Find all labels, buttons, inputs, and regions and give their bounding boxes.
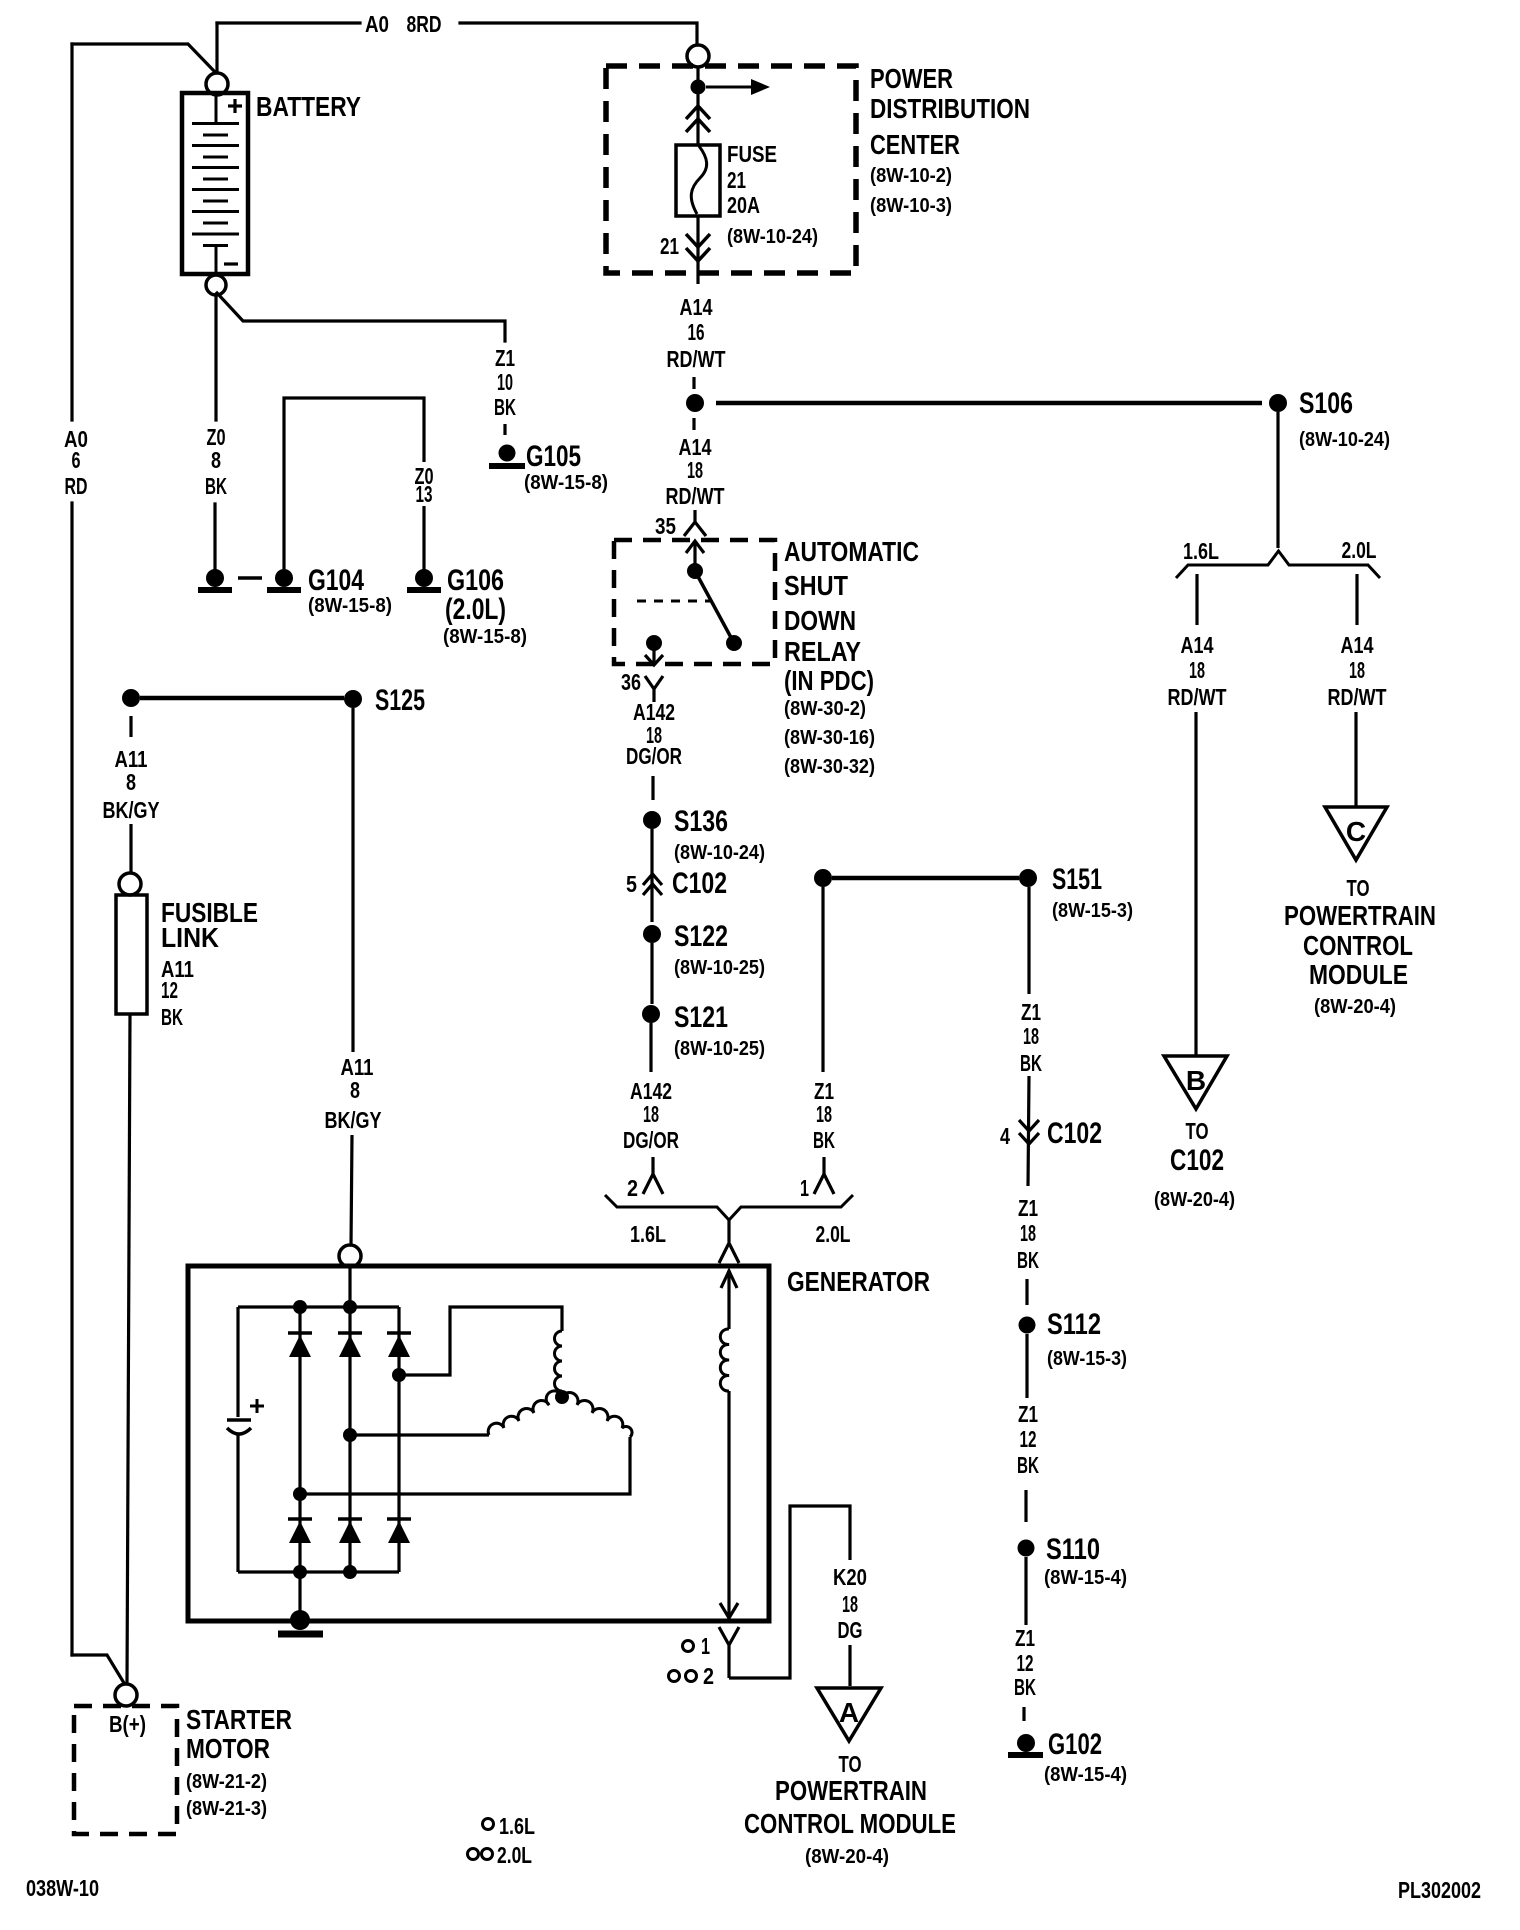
svg-text:(8W-20-4): (8W-20-4) [1154, 1189, 1235, 1211]
generator box [188, 1266, 769, 1621]
svg-text:(2.0L): (2.0L) [445, 593, 506, 626]
svg-text:BATTERY: BATTERY [256, 91, 361, 122]
svg-text:PL302002: PL302002 [1398, 1877, 1481, 1903]
generator output terminal circle [339, 1245, 361, 1267]
splice S112 [1019, 1317, 1036, 1334]
triangle connector B [1164, 1056, 1227, 1109]
connector pin 35 [684, 510, 706, 536]
triangle connector C [1325, 807, 1387, 860]
diode D1 bottom [288, 1517, 312, 1521]
capacitor branch lower [236, 1434, 239, 1572]
wire generator terminal stem [348, 1267, 351, 1307]
svg-text:(8W-30-2): (8W-30-2) [784, 698, 866, 720]
relay pin 35 arrow inside [693, 541, 696, 570]
diode D3 top [387, 1331, 411, 1335]
wire 2.0L branch to triangle C [1354, 712, 1357, 807]
svg-text:4: 4 [1000, 1123, 1010, 1149]
capacitor plus sign [250, 1399, 264, 1413]
svg-text:SHUT: SHUT [784, 570, 848, 601]
generator case ground stem [298, 1572, 301, 1618]
wire Z0 battery negative down [214, 295, 217, 420]
fuse element wave [691, 146, 706, 214]
svg-text:12: 12 [1020, 1426, 1037, 1452]
splice S125 left dot [122, 689, 140, 707]
svg-text:(8W-15-3): (8W-15-3) [1047, 1348, 1127, 1370]
svg-text:18: 18 [1349, 657, 1365, 683]
wire A0 top horizontal right segment [460, 23, 697, 44]
wire A0 top horizontal left segment [217, 21, 360, 24]
svg-text:DISTRIBUTION: DISTRIBUTION [870, 93, 1030, 124]
splice S106 [1269, 394, 1287, 412]
svg-text:RD/WT: RD/WT [1328, 684, 1387, 710]
svg-text:18: 18 [842, 1591, 858, 1617]
wire dash to G105 [503, 424, 506, 435]
ground G105 [499, 445, 516, 462]
junction dot stator tap 1 [293, 1487, 307, 1501]
ground G104 right dot [275, 569, 293, 587]
svg-text:CONTROL: CONTROL [1303, 930, 1413, 961]
junction dot stator tap 2 [343, 1428, 357, 1442]
svg-text:8: 8 [126, 769, 136, 795]
battery internal bottom stem [215, 246, 218, 273]
svg-text:BK: BK [1017, 1452, 1039, 1478]
relay common contact dot [687, 563, 703, 579]
svg-text:POWERTRAIN: POWERTRAIN [1284, 900, 1436, 931]
wire Z1 battery negative to G105 [217, 293, 505, 341]
generator case ground [290, 1610, 310, 1630]
svg-text:A14: A14 [1341, 632, 1374, 658]
svg-text:(IN PDC): (IN PDC) [784, 665, 874, 696]
power distribution center dashed box [606, 66, 856, 273]
svg-text:(8W-30-32): (8W-30-32) [784, 756, 875, 778]
svg-text:G104: G104 [308, 564, 364, 597]
svg-text:(8W-15-3): (8W-15-3) [1052, 900, 1133, 922]
svg-text:(8W-21-3): (8W-21-3) [186, 1798, 267, 1820]
field winding coil [720, 1329, 729, 1391]
wire dash below junction [692, 418, 695, 430]
svg-text:DG: DG [838, 1617, 863, 1643]
svg-text:18: 18 [643, 1101, 659, 1127]
svg-text:(8W-15-4): (8W-15-4) [1044, 1567, 1127, 1589]
junction dot in PDC [691, 80, 706, 95]
wire to generator terminal [351, 1135, 352, 1246]
svg-text:1.6L: 1.6L [630, 1221, 666, 1247]
wire to fusible link [129, 824, 132, 873]
svg-text:BK: BK [1014, 1674, 1036, 1700]
svg-text:S110: S110 [1046, 1533, 1100, 1566]
svg-text:16: 16 [688, 319, 705, 345]
wire S112 down [1025, 1334, 1028, 1398]
wire S125 horizontal [140, 696, 344, 700]
wire dash below S125 left [129, 716, 132, 737]
svg-text:2.0L: 2.0L [1342, 537, 1377, 563]
svg-text:CONTROL MODULE: CONTROL MODULE [744, 1808, 956, 1839]
junction dots top bus [293, 1300, 307, 1314]
diode D2 bottom [338, 1517, 362, 1521]
svg-text:35: 35 [655, 513, 676, 539]
stator center junction dot [555, 1390, 569, 1404]
connector generator field pin [719, 1243, 739, 1263]
svg-text:18: 18 [1189, 657, 1205, 683]
relay thrown contact dot [726, 635, 742, 651]
svg-text:Z1: Z1 [1021, 999, 1041, 1025]
svg-text:(8W-15-8): (8W-15-8) [443, 626, 527, 648]
wire stator phase 2 [350, 1433, 489, 1436]
wire 1.6L branch upper [1195, 574, 1198, 625]
wire A0 left vertical upper [70, 44, 73, 420]
wire A0 into starter B(+) [72, 1655, 124, 1683]
starter B(+) terminal circle [115, 1684, 137, 1706]
svg-text:(8W-30-16): (8W-30-16) [784, 727, 875, 749]
svg-text:8RD: 8RD [407, 11, 442, 37]
svg-text:13: 13 [416, 481, 433, 507]
battery minus sign [224, 262, 238, 265]
battery plus sign [228, 99, 242, 113]
wire fusible link to starter [127, 1014, 130, 1684]
svg-text:(8W-10-24): (8W-10-24) [1299, 429, 1390, 451]
svg-text:S125: S125 [375, 684, 425, 717]
svg-text:(8W-15-8): (8W-15-8) [524, 472, 608, 494]
svg-text:C: C [1346, 816, 1366, 847]
fuse 21 body [676, 145, 720, 216]
svg-text:21: 21 [660, 233, 679, 259]
field winding arrow top [727, 1270, 730, 1329]
connector pin 36 [645, 676, 663, 702]
stator winding 2 coil [488, 1391, 562, 1435]
wire dash above G102 [1022, 1707, 1025, 1721]
legend 2.0L [468, 1849, 479, 1860]
wire dash above S136 [651, 776, 654, 800]
generator bottom bus [238, 1570, 399, 1573]
svg-text:1: 1 [701, 1633, 710, 1659]
svg-text:18: 18 [1020, 1220, 1036, 1246]
wire fuse top with connector chevrons [696, 93, 699, 145]
svg-text:(8W-10-25): (8W-10-25) [674, 1038, 765, 1060]
starter motor dashed box [74, 1706, 177, 1834]
junction dot Z1 generator [814, 869, 832, 887]
wire S136 to C102 [650, 829, 653, 922]
wire dash above S110 [1024, 1490, 1027, 1522]
svg-text:LINK: LINK [161, 922, 219, 953]
svg-text:18: 18 [1023, 1023, 1039, 1049]
svg-text:RD/WT: RD/WT [667, 346, 726, 372]
fusible link terminal circle [119, 873, 141, 895]
wire S106 down [1276, 412, 1279, 548]
svg-text:RD/WT: RD/WT [666, 483, 725, 509]
svg-text:C102: C102 [1047, 1117, 1102, 1150]
svg-text:AUTOMATIC: AUTOMATIC [784, 536, 919, 567]
diode branch 1 [298, 1307, 301, 1572]
svg-text:G102: G102 [1048, 1728, 1102, 1761]
wire S151 down [1027, 887, 1030, 994]
svg-text:A14: A14 [680, 294, 713, 320]
battery plates [192, 122, 239, 125]
arrow feed right in PDC [706, 79, 770, 95]
battery negative terminal circle [206, 275, 226, 295]
svg-text:18: 18 [687, 457, 703, 483]
svg-text:MOTOR: MOTOR [186, 1733, 270, 1764]
svg-text:5: 5 [626, 871, 637, 897]
svg-text:CENTER: CENTER [870, 129, 960, 160]
wire S125 right branch down [351, 708, 354, 1052]
svg-text:DG/OR: DG/OR [623, 1127, 679, 1153]
relay pin 36 arrow down [652, 643, 655, 664]
triangle connector A [817, 1688, 881, 1741]
svg-text:S121: S121 [674, 1001, 728, 1034]
diode D2 top [338, 1331, 362, 1335]
svg-text:(8W-15-8): (8W-15-8) [308, 595, 392, 617]
svg-text:Z1: Z1 [1015, 1625, 1035, 1651]
svg-text:6: 6 [72, 447, 81, 473]
svg-text:C102: C102 [672, 867, 727, 900]
brace generator inputs [605, 1195, 853, 1220]
wire 1.6L branch to triangle B [1194, 712, 1197, 1056]
svg-text:BK: BK [161, 1004, 183, 1030]
svg-text:Z1: Z1 [495, 345, 515, 371]
battery positive terminal circle [206, 73, 228, 95]
junction dot to S106 [686, 394, 704, 412]
splice S136 [643, 811, 661, 829]
svg-text:21: 21 [727, 167, 746, 193]
wire 2.0L branch upper [1355, 574, 1358, 625]
relay internal dashed divider [637, 600, 710, 603]
PDC terminal circle [687, 45, 709, 67]
automatic shut down relay dashed box [614, 540, 775, 664]
wire to S106 [716, 401, 1262, 406]
splice S110 [1018, 1540, 1035, 1557]
svg-text:BK: BK [494, 394, 516, 420]
relay pin 36 contact dot [646, 635, 662, 651]
svg-text:G105: G105 [526, 440, 581, 473]
pin legend circles 2 [669, 1671, 680, 1682]
stator winding 3 coil [562, 1392, 632, 1437]
svg-text:BK: BK [205, 473, 227, 499]
svg-text:GENERATOR: GENERATOR [787, 1266, 930, 1297]
svg-text:RELAY: RELAY [784, 636, 861, 667]
svg-text:20A: 20A [727, 192, 760, 218]
svg-text:(8W-10-24): (8W-10-24) [674, 842, 765, 864]
svg-text:S106: S106 [1299, 387, 1353, 420]
svg-text:A0: A0 [365, 11, 389, 37]
wire Z0 13 inverted U to G106 [284, 398, 424, 569]
field winding lower wire [727, 1391, 730, 1618]
wire field to K20 [729, 1506, 850, 1678]
splice S151 [1019, 869, 1037, 887]
pin legend circle 1 [683, 1641, 694, 1652]
svg-text:1.6L: 1.6L [1183, 538, 1219, 564]
svg-text:Z1: Z1 [1018, 1195, 1038, 1221]
wire A0 left vertical lower [70, 503, 73, 1655]
wire PDC internal top [696, 67, 699, 80]
svg-text:C102: C102 [1170, 1144, 1224, 1177]
junction dots bottom bus [293, 1565, 307, 1579]
wire dash above S112 [1025, 1279, 1028, 1305]
generator top bus [238, 1305, 399, 1308]
ground G102 [1017, 1734, 1035, 1752]
wire S110 down [1024, 1557, 1027, 1625]
wire stator phase 1 [399, 1307, 562, 1375]
svg-text:FUSE: FUSE [727, 141, 777, 167]
svg-text:TO: TO [1347, 875, 1370, 901]
splice S121 [642, 1005, 660, 1023]
svg-text:BK: BK [813, 1127, 835, 1153]
svg-text:K20: K20 [833, 1564, 867, 1590]
wire stator phase 3 return [300, 1437, 630, 1494]
wire Z1 generator branch down [821, 887, 824, 1072]
stator winding 1 coil [555, 1331, 563, 1391]
svg-text:36: 36 [621, 669, 641, 695]
relay switch blade [695, 571, 734, 643]
svg-text:8: 8 [211, 447, 221, 473]
svg-text:DG/OR: DG/OR [626, 743, 682, 769]
svg-text:BK: BK [1020, 1050, 1042, 1076]
svg-text:TO: TO [839, 1751, 862, 1777]
wire dash between G104 dots [238, 576, 262, 580]
battery internal top stem [215, 95, 218, 122]
brace S106 engine split [1176, 551, 1380, 578]
wire K20 to triangle A [848, 1645, 851, 1686]
capacitor plates [227, 1418, 251, 1422]
svg-text:TO: TO [1186, 1118, 1209, 1144]
fusible link body [116, 895, 147, 1014]
svg-text:1: 1 [800, 1175, 809, 1201]
svg-text:A14: A14 [1181, 632, 1214, 658]
svg-text:S112: S112 [1047, 1308, 1101, 1341]
svg-text:(8W-10-25): (8W-10-25) [674, 957, 765, 979]
splice S122 [643, 925, 661, 943]
diode branch 2 [348, 1307, 351, 1572]
svg-text:S151: S151 [1052, 863, 1102, 896]
diode D1 top [288, 1331, 312, 1335]
svg-text:RD: RD [65, 473, 88, 499]
svg-text:(8W-21-2): (8W-21-2) [186, 1771, 267, 1793]
wire battery positive stub [215, 23, 218, 72]
svg-text:10: 10 [497, 369, 513, 395]
svg-text:2.0L: 2.0L [816, 1221, 851, 1247]
diode D3 bottom [387, 1517, 411, 1521]
diode branch 3 [397, 1307, 400, 1572]
svg-text:POWER: POWER [870, 63, 953, 94]
svg-text:BK: BK [1017, 1247, 1039, 1273]
wire dash above S-junction [692, 377, 695, 389]
svg-text:(8W-15-4): (8W-15-4) [1044, 1764, 1127, 1786]
svg-text:038W-10: 038W-10 [26, 1875, 99, 1901]
wire S122 to S121 [650, 943, 653, 1004]
ground G106 [415, 569, 433, 587]
svg-text:S136: S136 [674, 805, 728, 838]
splice S125 right dot [344, 690, 362, 708]
svg-text:(8W-10-24): (8W-10-24) [727, 226, 818, 248]
wire Z0 lower segment [213, 504, 216, 570]
wire G106 stub [422, 506, 425, 570]
legend 1.6L [483, 1819, 494, 1830]
svg-text:POWERTRAIN: POWERTRAIN [775, 1775, 927, 1806]
wire to S151 [832, 876, 1019, 880]
ground G104 left dot [206, 569, 224, 587]
svg-text:1.6L: 1.6L [499, 1813, 535, 1839]
svg-text:2: 2 [627, 1175, 638, 1201]
svg-text:(8W-10-2): (8W-10-2) [870, 165, 952, 187]
svg-text:S122: S122 [674, 920, 728, 953]
svg-text:12: 12 [161, 977, 178, 1003]
svg-text:DOWN: DOWN [784, 605, 856, 636]
svg-text:RD/WT: RD/WT [1168, 684, 1227, 710]
wire to C102 pin 4 [1028, 1076, 1029, 1186]
svg-text:MODULE: MODULE [1309, 959, 1408, 990]
svg-text:A: A [839, 1697, 859, 1728]
svg-text:BK/GY: BK/GY [325, 1107, 382, 1133]
svg-text:8: 8 [350, 1077, 360, 1103]
wire S121 down [649, 1023, 652, 1072]
junction dot stator tap 3 [392, 1368, 406, 1382]
svg-text:B: B [1186, 1065, 1206, 1096]
battery body [182, 93, 248, 274]
svg-text:2: 2 [703, 1663, 714, 1689]
svg-text:12: 12 [1017, 1650, 1034, 1676]
svg-text:18: 18 [816, 1101, 832, 1127]
capacitor branch upper [236, 1307, 239, 1417]
svg-text:(8W-10-3): (8W-10-3) [870, 195, 952, 217]
wire A0 branch to left side [72, 44, 214, 71]
svg-text:(8W-20-4): (8W-20-4) [1314, 996, 1396, 1018]
field winding arrow bottom [720, 1603, 738, 1618]
svg-text:2.0L: 2.0L [497, 1842, 532, 1868]
svg-text:Z1: Z1 [1018, 1401, 1038, 1427]
svg-text:B(+): B(+) [109, 1711, 146, 1737]
connector C102 pin 4 chevrons [1019, 1120, 1039, 1144]
wire fuse bottom with connector chevrons [696, 216, 699, 284]
svg-text:(8W-20-4): (8W-20-4) [805, 1846, 889, 1868]
connector C102 pin 5 chevrons [643, 874, 662, 895]
svg-text:BK/GY: BK/GY [103, 797, 160, 823]
svg-text:STARTER: STARTER [186, 1704, 292, 1735]
wire brace to generator [727, 1220, 730, 1242]
connector field pin below box [719, 1627, 739, 1678]
